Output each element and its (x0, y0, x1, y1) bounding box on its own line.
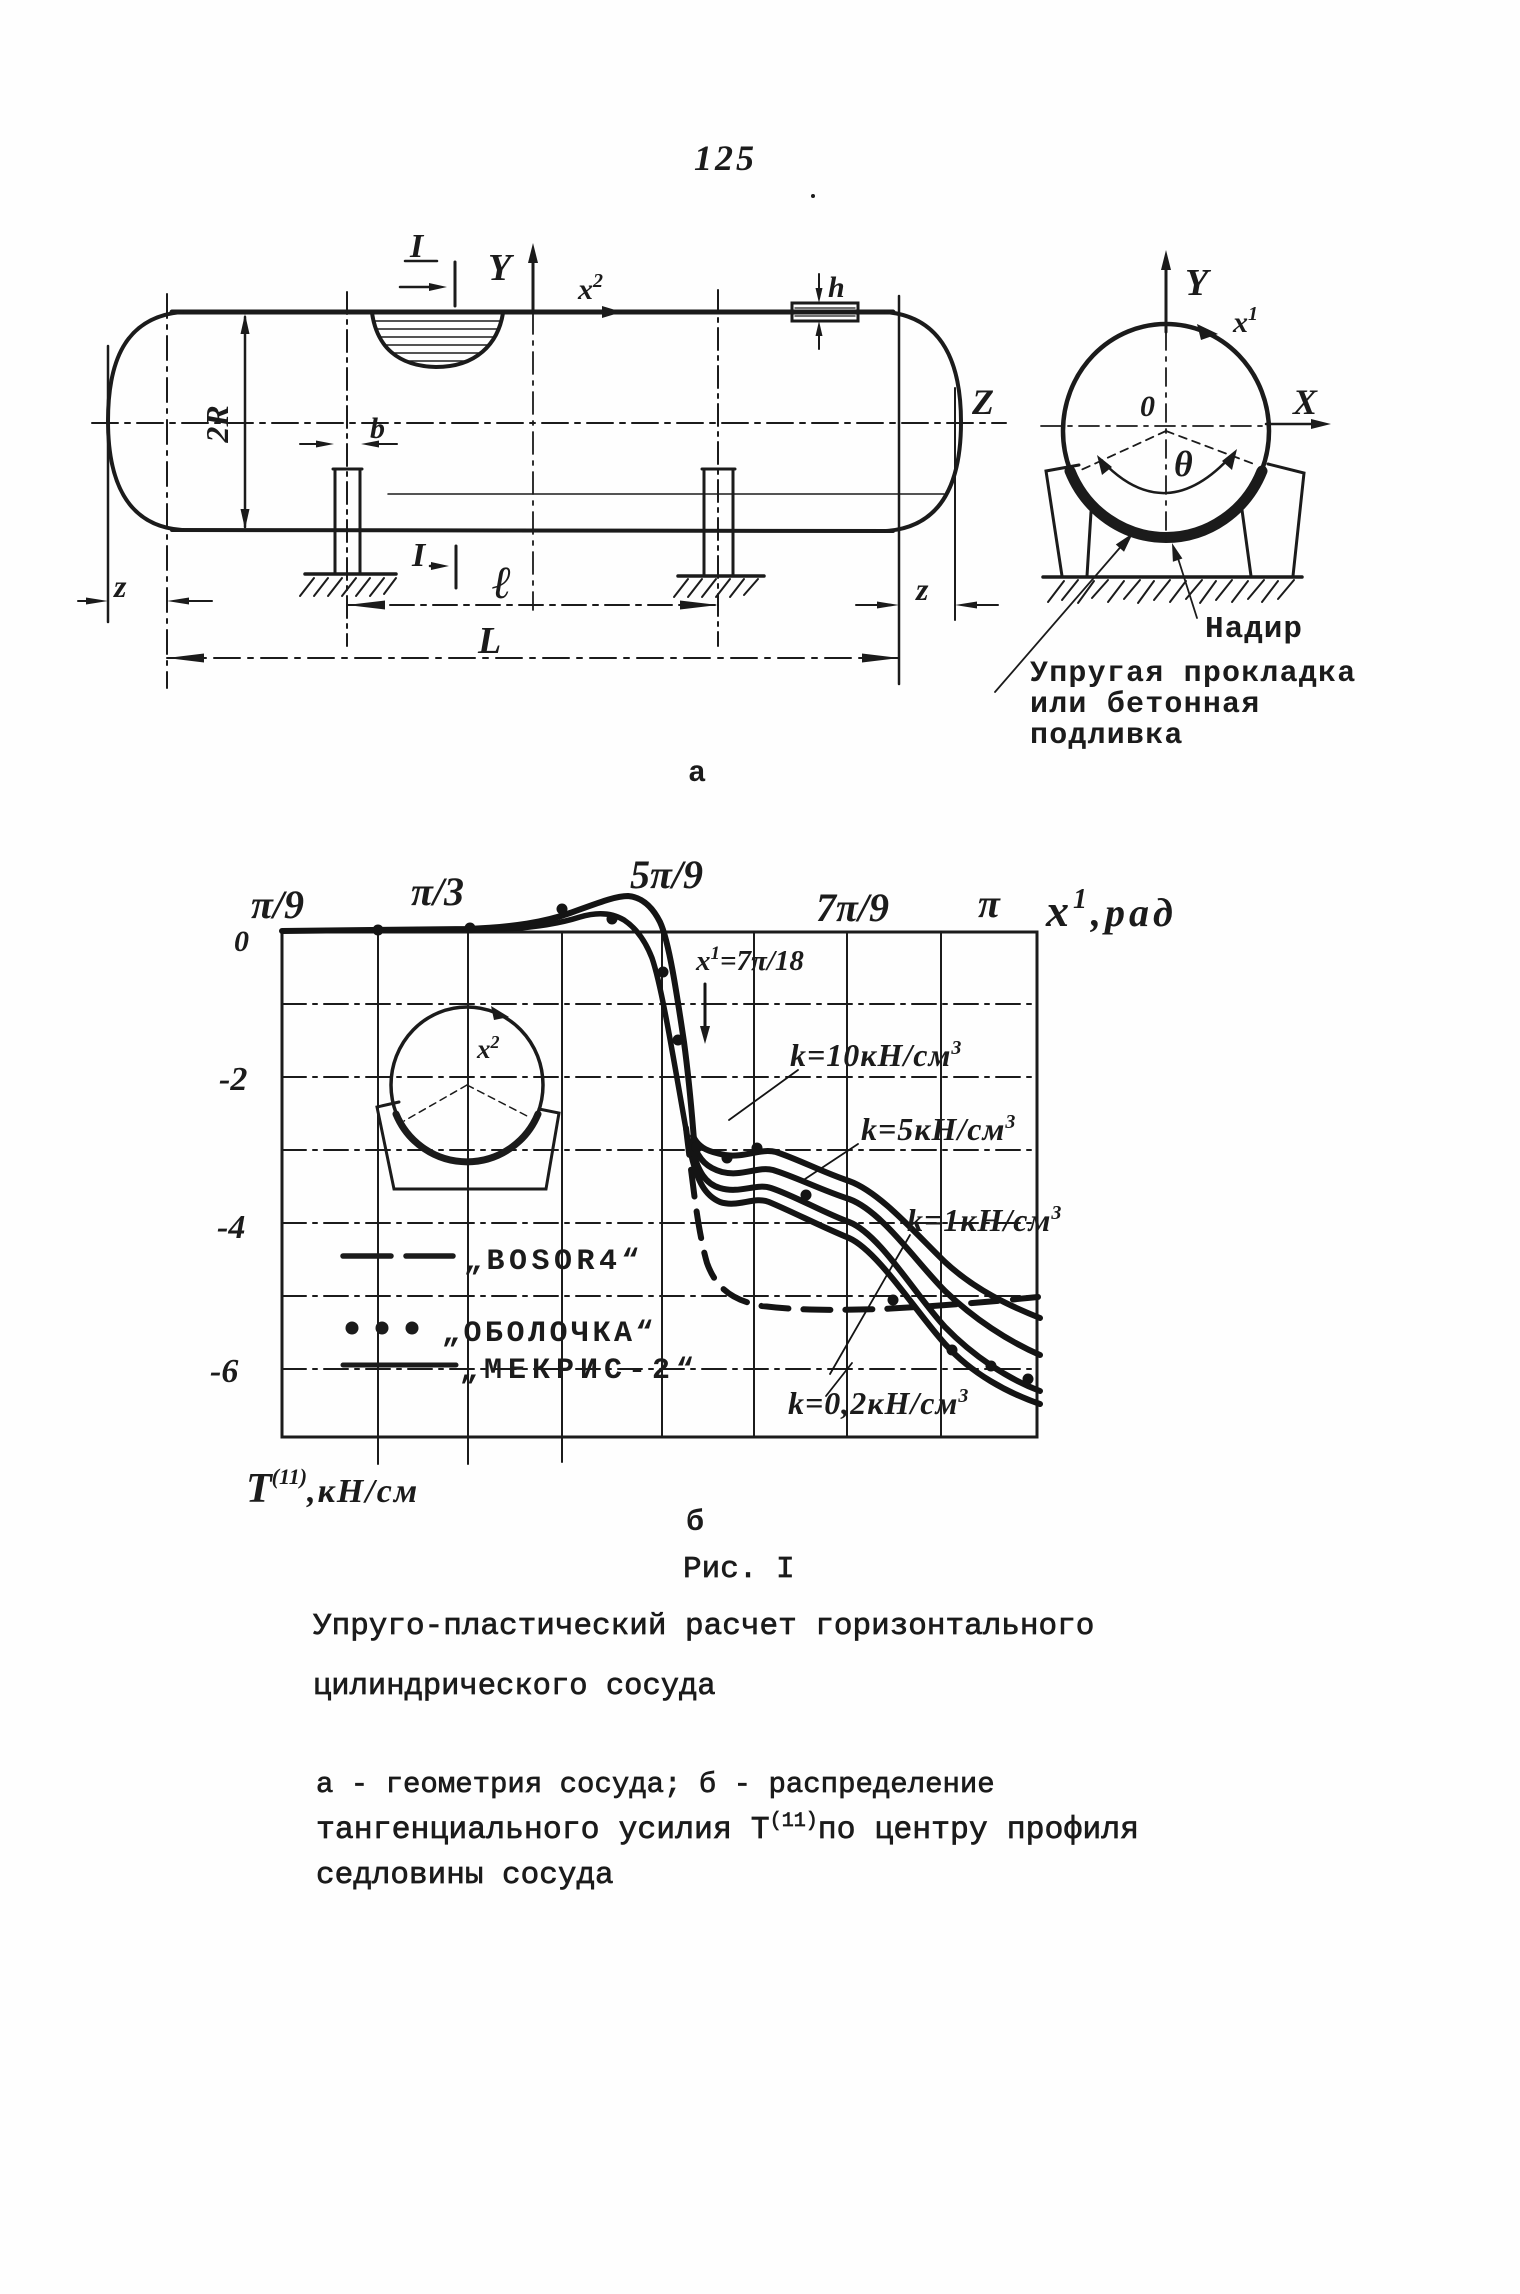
left footing (305, 572, 396, 576)
svg-text:„МЕКРИС-2“: „МЕКРИС-2“ (460, 1354, 700, 1388)
nozzle flange (792, 303, 858, 321)
svg-text:Y: Y (488, 247, 515, 289)
grid horizontals dash-dot (282, 1003, 1037, 1005)
svg-text:0: 0 (1140, 390, 1155, 423)
legend solid sample (343, 1363, 456, 1368)
dimension L (167, 657, 899, 659)
svg-text:k=1кН/см3: k=1кН/см3 (907, 1202, 1062, 1238)
curve common trunk strand 2 (470, 914, 689, 1146)
dimension h of nozzle (818, 274, 820, 296)
dimension z right (856, 604, 879, 606)
tank left head (108, 312, 182, 530)
right extension line (898, 296, 901, 684)
svg-text:X: X (1292, 382, 1318, 422)
svg-text:подливка: подливка (1030, 719, 1184, 753)
inset circle (391, 1007, 543, 1163)
section Y axis (1165, 258, 1168, 332)
svg-text:„BOSOR4“: „BOSOR4“ (464, 1245, 644, 1279)
right tangent extension line (954, 388, 956, 620)
experiment dots (373, 904, 1034, 1385)
svg-text:T(11),кН/см: T(11),кН/см (246, 1464, 419, 1512)
svg-text:5π/9: 5π/9 (630, 852, 703, 897)
leader k=10 (729, 1070, 798, 1120)
dimension 2R (244, 317, 247, 527)
saddle pad thick arc (1070, 471, 1262, 537)
section X axis (1041, 425, 1266, 427)
liquid level line (388, 493, 944, 495)
svg-text:цилиндрического сосуда: цилиндрического сосуда (313, 1670, 716, 1704)
svg-text:Упруго-пластический расчет гор: Упруго-пластический расчет горизонтально… (313, 1609, 1094, 1644)
svg-text:I: I (409, 228, 425, 265)
inset dashed radius right (467, 1085, 529, 1117)
svg-text:Z: Z (971, 382, 994, 422)
svg-text:„ОБОЛОЧКА“: „ОБОЛОЧКА“ (442, 1317, 657, 1351)
svg-text:-4: -4 (217, 1209, 245, 1246)
tank axis centerline (92, 422, 1006, 424)
inset saddle cradle (377, 1102, 559, 1189)
left support centerline (346, 292, 348, 646)
legend dashed sample (343, 1253, 391, 1259)
svg-text:ℓ: ℓ (492, 557, 512, 608)
inset dashed radius left (404, 1085, 467, 1121)
tank top shell line (172, 310, 893, 315)
left extension line (107, 346, 110, 622)
right support centerline (717, 290, 719, 646)
right footing hatch (674, 579, 758, 597)
svg-text:125: 125 (694, 138, 757, 178)
svg-text:L: L (477, 620, 501, 662)
svg-text:x2: x2 (476, 1032, 500, 1064)
left dash-dot extension line (166, 294, 168, 688)
grid vertical stubs below frame (377, 1437, 379, 1464)
svg-text:x1: x1 (1232, 303, 1258, 339)
svg-text:k=10кН/см3: k=10кН/см3 (790, 1037, 962, 1073)
chart frame (282, 932, 1037, 1437)
svg-text:7π/9: 7π/9 (816, 885, 889, 930)
dashed radius right (1166, 431, 1254, 464)
left footing hatch (300, 578, 396, 596)
curve k=10 (693, 1136, 1040, 1318)
tank right head (886, 312, 961, 531)
svg-text:Рис. I: Рис. I (683, 1552, 795, 1587)
svg-text:Надир: Надир (1205, 612, 1303, 647)
inset pad arc (396, 1114, 538, 1162)
svg-text:π/3: π/3 (411, 869, 464, 914)
cross-section shell circle (1063, 324, 1269, 538)
svg-text:θ: θ (1174, 444, 1193, 484)
svg-text:h: h (828, 271, 845, 304)
svg-text:π: π (978, 881, 1001, 926)
curve k=5 (692, 1141, 1040, 1355)
svg-text:b: b (370, 412, 385, 445)
svg-text:π/9: π/9 (251, 882, 304, 927)
svg-text:а - геометрия сосуда; б - расп: а - геометрия сосуда; б - распределение (316, 1768, 995, 1801)
svg-text:тангенциального усилия Т(11)по: тангенциального усилия Т(11)по центру пр… (316, 1810, 1139, 1848)
right support column (703, 469, 706, 575)
liquid pocket outline (372, 313, 503, 367)
svg-text:0: 0 (234, 925, 249, 958)
ground line (1043, 575, 1302, 579)
curve common trunk strand 1 (282, 896, 694, 1140)
svg-text:Y: Y (1185, 262, 1212, 304)
dashed radius left (1081, 431, 1166, 470)
scan speck (811, 194, 815, 198)
x2 axis arrow on top line (602, 306, 622, 318)
Y axis of side view (532, 250, 535, 312)
right footing (678, 574, 764, 578)
leader k=1 (830, 1235, 910, 1374)
svg-text:-2: -2 (219, 1061, 247, 1098)
curve k=1 (691, 1145, 1040, 1391)
dimension z left (78, 600, 88, 602)
x1 direction arrow on circle (1197, 324, 1218, 340)
svg-text:k=0,2кН/см3: k=0,2кН/см3 (788, 1385, 969, 1421)
saddle right leg (1268, 464, 1304, 576)
leader k=5 (802, 1144, 858, 1181)
dimension l between supports (347, 604, 718, 606)
leader to nadir point (1176, 552, 1197, 618)
svg-text:k=5кН/см3: k=5кН/см3 (861, 1111, 1016, 1147)
leader to elastic pad (995, 543, 1124, 692)
curve BOSOR4 dashed (686, 1128, 1038, 1310)
theta arc (1102, 455, 1232, 493)
svg-text:а: а (688, 757, 706, 791)
svg-text:x2: x2 (577, 270, 603, 306)
saddle left leg (1046, 465, 1079, 576)
svg-text:z: z (915, 571, 929, 607)
ground hatch (1048, 580, 1294, 603)
svg-text:x1=7π/18: x1=7π/18 (695, 943, 804, 977)
annotation arrow down (704, 984, 707, 1032)
svg-text:или бетонная: или бетонная (1030, 688, 1260, 722)
tank bottom shell line (172, 530, 893, 531)
svg-text:-6: -6 (210, 1353, 238, 1390)
svg-text:2R: 2R (199, 405, 235, 443)
svg-text:седловины сосуда: седловины сосуда (316, 1858, 614, 1893)
svg-text:x1,рад: x1,рад (1045, 884, 1177, 936)
grid verticals (377, 932, 379, 1437)
curve k=0.2 (690, 1149, 1040, 1404)
leader k=0.2 (826, 1363, 852, 1396)
svg-text:z: z (113, 568, 127, 604)
svg-text:I: I (411, 537, 427, 574)
legend dots sample (346, 1322, 359, 1335)
svg-text:Упругая прокладка: Упругая прокладка (1030, 657, 1356, 691)
svg-text:б: б (686, 1506, 704, 1540)
inset circle arrow (491, 1006, 509, 1020)
left support column (334, 469, 337, 573)
